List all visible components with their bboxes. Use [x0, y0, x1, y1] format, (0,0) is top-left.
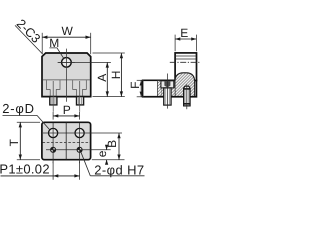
left hole lines [50, 89, 56, 96]
M hole crosshair horizontal [58, 61, 75, 63]
plate [42, 122, 91, 159]
dowel pin side [184, 86, 191, 106]
base bottom edge re-stroke [143, 96, 197, 98]
right pin inner lines [79, 97, 82, 104]
right pin below block [77, 97, 84, 105]
svg-text:W: W [62, 24, 74, 38]
vertical centerline of block [65, 49, 67, 102]
dowel hole left [51, 147, 56, 152]
hidden step dashed line [43, 142, 91, 144]
column [175, 53, 196, 81]
H dimension [93, 52, 125, 54]
pin centerline [186, 84, 188, 109]
M hole circle [62, 58, 72, 68]
T dimension [17, 121, 40, 123]
base plate [143, 80, 197, 97]
A dimension [58, 61, 111, 63]
hole column centerline right [79, 123, 81, 163]
svg-text:T: T [7, 138, 21, 146]
internal step line [43, 79, 90, 81]
left pin inner lines [52, 97, 55, 104]
svg-text:e: e [95, 150, 109, 157]
right hole lines [77, 89, 83, 96]
screw counterbore hatch left [162, 88, 164, 97]
dowel hole row centerline [46, 149, 111, 151]
hole row centerline (phi D) [43, 132, 122, 134]
P dimension [52, 112, 54, 120]
hex socket [164, 81, 170, 87]
right counterbore [73, 80, 87, 89]
svg-text:P: P [63, 103, 71, 117]
hatched dome [175, 73, 195, 97]
svg-text:2-φd H7: 2-φd H7 [94, 163, 144, 178]
pin shading [185, 89, 189, 105]
B dimension [92, 159, 125, 161]
e dimension [106, 145, 108, 149]
svg-text:F: F [128, 82, 142, 89]
svg-text:P1±0.02: P1±0.02 [0, 161, 50, 176]
svg-text:A: A [95, 74, 109, 82]
left pin below block [50, 97, 57, 105]
2-C3 label and leader [15, 25, 43, 54]
W dimension [41, 33, 43, 54]
screw shaft [164, 88, 171, 105]
svg-text:B: B [105, 140, 119, 148]
pin band bottom [184, 103, 191, 105]
screw head [161, 81, 174, 88]
phi D hole right [75, 128, 84, 137]
hatched wall strip [157, 81, 161, 97]
screw centerline [166, 74, 168, 109]
screw counterbore hatch right [171, 88, 175, 97]
M hole centerline through column [170, 61, 200, 63]
vertical centerline of plate [65, 123, 67, 160]
left leg centerline [52, 81, 54, 112]
P1 dimension [52, 162, 54, 180]
E dimension [174, 35, 176, 52]
F dimension [137, 79, 144, 81]
dowel hole right [77, 147, 82, 152]
hole column centerline left [52, 123, 54, 163]
phi D hole left [49, 128, 58, 137]
screw shaft shading [165, 89, 169, 105]
column thin line 2 [175, 58, 196, 60]
block body [42, 53, 91, 97]
right leg centerline [79, 81, 81, 112]
pin band top [184, 88, 191, 90]
left counterbore [46, 80, 60, 89]
column thin line 1 [175, 55, 196, 57]
svg-text:H: H [109, 71, 123, 80]
svg-text:E: E [180, 26, 188, 40]
svg-text:2-φD: 2-φD [2, 101, 35, 116]
